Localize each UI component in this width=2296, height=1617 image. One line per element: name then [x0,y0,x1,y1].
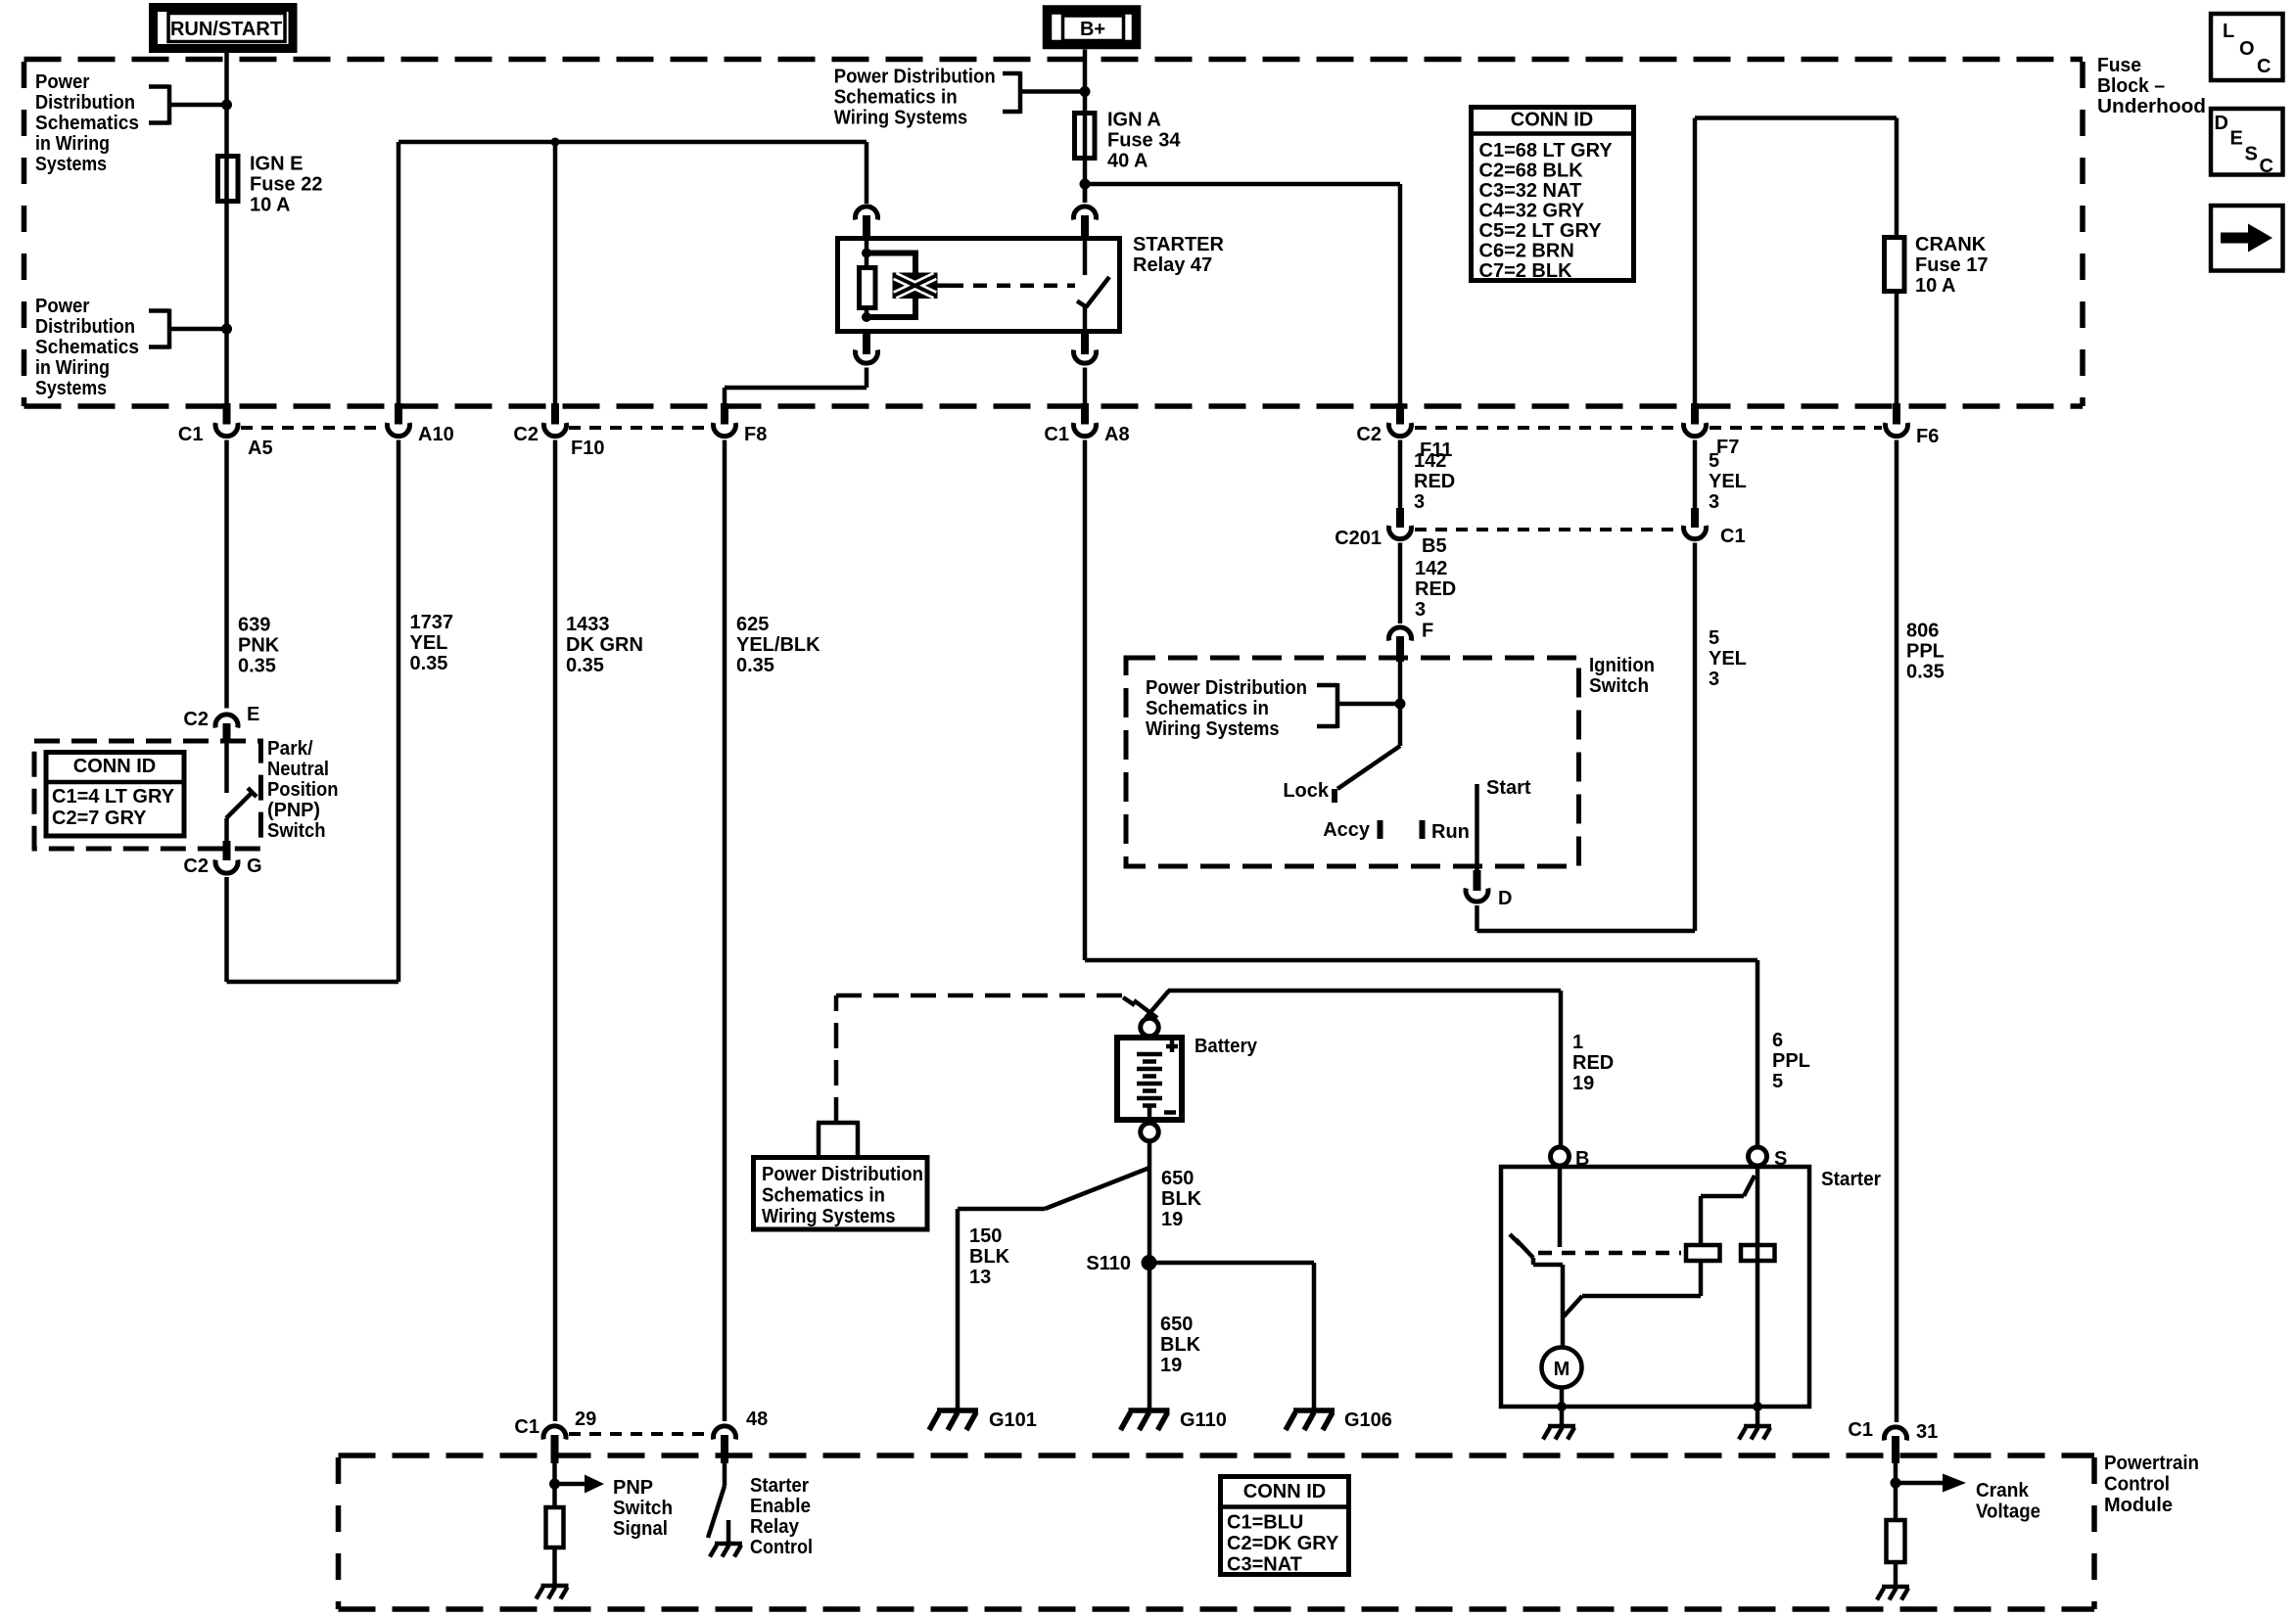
svg-text:1433: 1433 [566,614,610,635]
svg-text:C1=4 LT GRY: C1=4 LT GRY [52,786,175,808]
svg-text:10 A: 10 A [1915,275,1956,297]
svg-text:Enable: Enable [750,1496,811,1517]
svg-text:Control: Control [2104,1474,2170,1496]
svg-text:Starter: Starter [750,1475,809,1497]
svg-text:650: 650 [1160,1314,1193,1335]
fuse CRANK Fuse 17 10 A [1885,238,1905,292]
svg-text:YEL: YEL [1709,648,1747,670]
ignition switch dashed box [1126,658,1579,866]
ground G101 [929,1410,978,1430]
svg-text:YEL: YEL [1709,471,1747,492]
svg-text:S: S [2245,144,2258,165]
solenoid hold-in winding [1686,1245,1720,1261]
svg-text:6: 6 [1772,1030,1783,1051]
svg-text:13: 13 [969,1267,991,1288]
wire 5 YEL from F7 to C1 [1693,440,1698,509]
svg-text:Fuse: Fuse [2097,55,2141,76]
powertrain control module dashed box [339,1455,2095,1609]
svg-text:Schematics in: Schematics in [834,87,958,109]
dotted link F11-F7 [1415,426,1680,430]
wire RUN/START down to connector A5 [224,51,229,403]
svg-text:Power Distribution: Power Distribution [762,1164,923,1185]
svg-text:C201: C201 [1335,528,1382,549]
svg-text:M: M [1554,1359,1570,1380]
connector C1/31 (PCM) [1848,1419,1938,1463]
svg-text:in Wiring: in Wiring [35,133,110,155]
svg-text:0.35: 0.35 [238,656,276,677]
dotted link A5-A10 [241,426,384,430]
ground starter enable driver [710,1544,742,1557]
svg-text:C3=32 NAT: C3=32 NAT [1479,180,1582,202]
svg-text:F7: F7 [1716,437,1739,458]
svg-text:Schematics: Schematics [35,337,139,358]
svg-text:Systems: Systems [35,378,107,399]
svg-text:Wiring Systems: Wiring Systems [1146,718,1280,740]
svg-text:Schematics: Schematics [35,113,139,134]
svg-text:Battery: Battery [1195,1036,1258,1057]
resistor crank voltage [1887,1520,1905,1562]
svg-text:5: 5 [1772,1071,1783,1092]
CONN ID table (PCM) [1218,1477,1351,1576]
wire coil feed down to relay pin [865,142,869,204]
svg-text:Signal: Signal [613,1518,668,1540]
svg-text:C4=32 GRY: C4=32 GRY [1479,201,1585,222]
svg-text:CONN ID: CONN ID [1511,110,1593,131]
svg-text:CONN ID: CONN ID [1243,1481,1326,1502]
fuse IGN E Fuse 22 10 A [218,157,239,202]
svg-text:142: 142 [1415,558,1447,579]
connector F7 [1684,403,1740,458]
starter solenoid switch [1510,1167,1563,1347]
svg-text:G110: G110 [1180,1409,1227,1431]
svg-text:10 A: 10 A [250,195,291,216]
svg-text:0.35: 0.35 [410,653,448,674]
svg-text:3: 3 [1709,669,1719,690]
svg-text:Neutral: Neutral [267,759,329,780]
wire battery negative branch to G101 (150 BLK 13) [958,1168,1149,1410]
svg-text:O: O [2239,38,2255,60]
svg-text:Relay 47: Relay 47 [1133,254,1212,276]
ground starter motor [1543,1426,1575,1440]
svg-text:PPL: PPL [1906,641,1945,663]
connector F6 [1886,403,1940,447]
wire battery negative down to S110 (650 BLK 19) [1148,1141,1152,1263]
svg-text:F6: F6 [1916,426,1939,447]
svg-text:0.35: 0.35 [736,655,774,676]
fuse block underhood dashed box [24,60,2084,407]
wire 1433 DK GRN from F10 to PCM 29 [553,440,558,1422]
node junction below IGN A fuse [1080,179,1091,190]
svg-text:RED: RED [1415,578,1456,600]
svg-text:Switch: Switch [267,820,326,842]
wire A8 relay output to starter S [1085,440,1757,1148]
wire A10 vertical inside fuse block [397,142,401,403]
relay pin connector bottom right [1081,333,1089,354]
wire IGN A to relay switch pin [1083,184,1088,203]
svg-text:0.35: 0.35 [1906,662,1945,683]
svg-text:Distribution: Distribution [35,316,135,338]
starter solenoid winding return [1564,1263,1701,1317]
svg-text:B+: B+ [1080,19,1105,40]
svg-text:639: 639 [238,615,270,636]
svg-text:5: 5 [1709,450,1719,472]
svg-text:RED: RED [1414,471,1455,492]
svg-text:150: 150 [969,1225,1002,1247]
svg-text:A5: A5 [248,438,273,459]
svg-text:625: 625 [736,614,769,635]
Accy position contact [1378,820,1383,839]
dotted link C201-C1 [1415,528,1680,531]
connector 48 (PCM) [714,1409,769,1463]
svg-text:1: 1 [1572,1032,1583,1053]
connector D (ignition switch) [1466,870,1512,909]
svg-text:G106: G106 [1344,1409,1392,1431]
PNP switch contact [226,743,257,841]
wire F10 vertical inside fuse block [553,142,558,403]
svg-text:A8: A8 [1104,424,1130,445]
svg-text:Power: Power [35,71,90,93]
relay pin connector top left [856,207,878,220]
svg-text:Park/: Park/ [267,738,313,760]
svg-text:STARTER: STARTER [1133,234,1225,255]
svg-text:YEL/BLK: YEL/BLK [736,634,820,656]
svg-text:650: 650 [1161,1168,1194,1189]
node junction F10 tap [551,138,560,147]
svg-text:Distribution: Distribution [35,92,135,114]
svg-text:C2: C2 [1356,424,1382,445]
dashed wire battery feed note [836,995,1122,1123]
wire 5 YEL from C1 down to ignition switch D output [1693,543,1698,932]
svg-text:Power: Power [35,296,90,317]
svg-text:Voltage: Voltage [1976,1501,2040,1523]
relay coil loop wires [867,251,918,321]
starter S wire through pull-in winding [1756,1167,1760,1410]
svg-text:Underhood: Underhood [2097,96,2206,117]
connector C2/E (PNP switch) [183,704,259,743]
connector C2/F11 [1356,403,1452,461]
starter solenoid hold-in winding tap [1701,1176,1755,1245]
svg-text:3: 3 [1709,491,1719,513]
wire S110 to G106 [1149,1263,1315,1410]
svg-text:Block –: Block – [2097,75,2165,97]
svg-text:C3=NAT: C3=NAT [1227,1554,1302,1576]
svg-text:D: D [1498,888,1512,909]
wire S110 to G110 (650 BLK 19) [1148,1263,1152,1410]
svg-text:Switch: Switch [1589,675,1649,697]
svg-text:E: E [2230,128,2243,150]
wire G back up to A10 [227,877,399,982]
svg-text:Power Distribution: Power Distribution [1146,677,1307,699]
ground crank voltage resistor [1877,1587,1909,1600]
connector C1 (ignition feed) [1684,508,1746,547]
resistor PNP pull [546,1507,564,1548]
battery [1117,1036,1258,1120]
svg-text:Start: Start [1486,777,1531,799]
dotted link F7-F6 [1710,426,1882,430]
dotted link F10-F8 [569,426,710,430]
svg-text:F8: F8 [744,424,767,445]
svg-text:Fuse 22: Fuse 22 [250,174,322,196]
svg-text:C1: C1 [178,424,204,445]
svg-text:142: 142 [1414,450,1446,472]
wire battery positive to starter B (1 RED 19) [1146,991,1561,1147]
svg-text:19: 19 [1160,1355,1182,1376]
svg-text:C5=2 LT GRY: C5=2 LT GRY [1479,220,1603,242]
svg-text:19: 19 [1572,1073,1594,1094]
PNP switch dashed box [34,741,260,849]
wire relay switch output to A8 [1083,368,1088,404]
svg-text:E: E [247,704,259,725]
connector C1/A5 [178,403,273,459]
bracket ignition note [1317,683,1400,728]
svg-text:YEL: YEL [410,632,448,654]
svg-text:29: 29 [575,1409,596,1430]
connector C2/G (PNP switch) [183,841,261,877]
wire F7 net up and over to CRANK fuse [1695,118,1897,404]
svg-text:BLK: BLK [1160,1334,1201,1356]
svg-text:F: F [1422,621,1433,642]
svg-text:Relay: Relay [750,1516,800,1538]
wire 142 RED from C201 to F [1398,543,1403,624]
crank voltage sense circuit [1894,1463,1898,1520]
wire 639 PNK from A5 to E [224,440,229,709]
ignition switch rotor to Lock [1337,662,1400,789]
svg-text:BLK: BLK [1161,1188,1202,1210]
svg-text:BLK: BLK [969,1246,1010,1268]
fuse IGN A Fuse 34 40 A [1075,114,1096,159]
svg-text:C1=BLU: C1=BLU [1227,1512,1303,1534]
svg-text:DK GRN: DK GRN [566,634,643,656]
svg-text:Systems: Systems [35,154,107,175]
svg-text:C1=68 LT GRY: C1=68 LT GRY [1479,140,1614,162]
relay actuation dashed link [936,283,950,288]
svg-text:C2=7 GRY: C2=7 GRY [52,808,147,829]
svg-text:Control: Control [750,1537,813,1558]
svg-text:C2: C2 [183,855,209,877]
svg-text:Schematics in: Schematics in [1146,698,1269,719]
wire 806 PPL from F6 to PCM 31 [1895,440,1899,1423]
svg-text:IGN A: IGN A [1107,110,1161,131]
resistor inside relay [860,268,876,308]
splice X at battery positive [1123,997,1135,1005]
note box Power Distribution Schematics in Wiring Systems (battery) [754,1158,928,1230]
svg-text:48: 48 [746,1409,768,1430]
ground G110 [1121,1410,1170,1430]
wire 1737 YEL from A10 down [397,440,401,983]
svg-text:Starter: Starter [1821,1169,1881,1190]
svg-text:C2: C2 [513,424,539,445]
svg-text:CONN ID: CONN ID [73,756,156,777]
svg-text:L: L [2223,21,2234,42]
svg-text:Lock: Lock [1283,780,1330,802]
CONN ID table (fuse block) [1469,108,1636,283]
relay pin connector top right [1074,207,1097,220]
connector C201/B5 [1335,508,1446,557]
svg-text:RED: RED [1572,1052,1614,1074]
Lock position contact [1332,789,1337,803]
ground starter solenoid [1739,1426,1771,1440]
svg-text:F10: F10 [571,438,604,459]
CONN ID table (PNP switch) [44,753,187,837]
legend box arrow [2211,206,2283,271]
battery negative terminal [1141,1123,1159,1141]
svg-text:C1: C1 [514,1416,539,1438]
svg-text:3: 3 [1415,599,1426,621]
starter B terminal [1551,1147,1570,1166]
wire 142 RED from F11 to C201 [1398,440,1403,509]
node junction on B+ feed [1080,86,1091,97]
node junction on RUN/START feed [221,100,232,111]
node S110 splice [1142,1255,1157,1270]
ground PNP resistor [537,1586,569,1599]
svg-text:5: 5 [1709,627,1719,649]
svg-text:C7=2 BLK: C7=2 BLK [1479,260,1573,282]
starter ground junctions [1557,1402,1567,1411]
svg-text:19: 19 [1161,1209,1183,1230]
svg-text:B5: B5 [1422,535,1447,557]
svg-text:G101: G101 [989,1409,1037,1431]
relay coil branch wire [865,238,869,317]
relay switch contact [1083,237,1088,275]
ground G106 [1286,1410,1335,1430]
svg-text:C6=2 BRN: C6=2 BRN [1479,241,1574,262]
svg-text:C2=68 BLK: C2=68 BLK [1479,161,1584,182]
bracket above battery note box [817,1123,860,1155]
relay STARTER Relay 47 box [838,239,1120,332]
Run position contact [1420,820,1426,839]
svg-text:0.35: 0.35 [566,655,604,676]
terminal box B+ [1048,10,1137,45]
bracket top middle note [1003,71,1085,114]
svg-text:C1: C1 [1720,526,1746,547]
connector A10 [388,403,454,445]
connector C1/29 (PCM) [514,1409,596,1463]
bracket upper left note [149,85,227,125]
legend box DESC [2211,109,2283,177]
svg-text:Switch: Switch [613,1498,673,1519]
svg-text:31: 31 [1916,1421,1938,1443]
battery positive terminal [1141,1018,1159,1037]
svg-text:PPL: PPL [1772,1050,1810,1072]
PNP switch signal input circuit [552,1463,557,1507]
svg-text:40 A: 40 A [1107,151,1148,172]
starter S terminal [1749,1147,1767,1166]
starter motor M [1542,1348,1582,1388]
svg-text:Position: Position [267,779,339,801]
connector F (ignition switch) [1389,621,1434,663]
svg-text:3: 3 [1414,491,1425,513]
dotted link 29-48 [569,1432,711,1436]
legend box LOC [2211,14,2283,80]
svg-text:Ignition: Ignition [1589,655,1655,676]
svg-text:S110: S110 [1086,1253,1131,1274]
svg-text:C2=DK GRY: C2=DK GRY [1227,1533,1339,1554]
svg-text:C: C [2260,156,2273,177]
svg-text:A10: A10 [418,424,454,445]
svg-text:CRANK: CRANK [1915,234,1987,255]
svg-text:PNP: PNP [613,1477,653,1499]
wire relay coil return to F8 [725,368,867,404]
svg-text:Crank: Crank [1976,1480,2030,1501]
terminal box RUN/START [154,8,294,49]
wire 625 YEL/BLK from F8 to PCM 48 [723,440,727,1422]
bracket lower left note [149,309,227,349]
solenoid pull-in winding [1741,1245,1775,1261]
svg-text:C1: C1 [1044,424,1069,445]
svg-text:Module: Module [2104,1495,2173,1516]
node junction ignition feed [1395,699,1406,710]
svg-text:C: C [2257,56,2271,77]
svg-text:Fuse 17: Fuse 17 [1915,254,1988,276]
svg-text:PNK: PNK [238,635,280,657]
svg-text:Accy: Accy [1323,819,1371,841]
svg-text:Fuse 34: Fuse 34 [1107,130,1181,152]
svg-text:Wiring Systems: Wiring Systems [834,108,968,129]
svg-text:C2: C2 [183,709,209,730]
starter enable relay control driver switch [708,1463,728,1544]
svg-text:C1: C1 [1848,1419,1873,1441]
wire F11 vertical inside fuse block [1398,184,1403,403]
svg-text:IGN E: IGN E [250,154,303,175]
starter box [1501,1167,1809,1407]
wire B+ down through IGN A fuse [1083,50,1088,204]
svg-text:in Wiring: in Wiring [35,357,110,379]
relay pin connector bottom left [863,333,870,354]
connector F8 [714,403,768,445]
connector C1/A8 [1044,403,1129,445]
svg-text:D: D [2215,113,2228,134]
svg-text:1737: 1737 [410,612,454,633]
svg-text:G: G [247,855,262,877]
starter solenoid actuation dashed link [1538,1251,1681,1256]
svg-text:Power Distribution: Power Distribution [834,67,996,88]
Start position contact wire [1475,784,1479,870]
svg-text:(PNP): (PNP) [267,800,320,821]
node junction lower on RUN/START feed [221,324,232,335]
svg-text:RUN/START: RUN/START [170,19,282,40]
svg-text:Powertrain: Powertrain [2104,1453,2199,1474]
svg-text:806: 806 [1906,621,1939,642]
svg-text:Schematics in: Schematics in [762,1185,885,1207]
svg-text:Run: Run [1431,821,1470,843]
svg-text:Wiring Systems: Wiring Systems [762,1206,896,1227]
wire D to 5 YEL [1477,905,1696,931]
relay coil symbol [893,273,938,300]
net A10/F10/relay-coil horizontal [398,140,867,145]
wire from IGN A junction right to F11 [1085,182,1400,187]
connector C2/F10 [513,403,604,459]
